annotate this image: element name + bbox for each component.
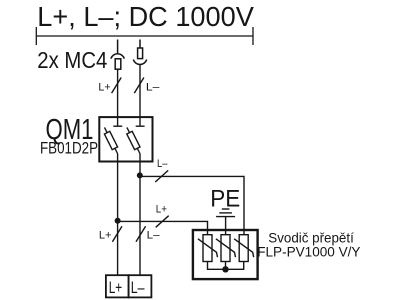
earth symbol PE [216, 209, 235, 235]
break mark on lower L+ wire [112, 226, 122, 242]
svg-text:L–: L– [146, 82, 160, 94]
svg-text:L+: L+ [98, 82, 111, 94]
surge protective device box [193, 230, 258, 279]
junction node on L+ wire [115, 218, 121, 224]
switch-disconnector QM1 box [99, 117, 152, 161]
svg-text:L–: L– [147, 229, 161, 241]
QM1 pole 1 fuse body [104, 131, 117, 149]
wire L+ branch to SPD [118, 221, 208, 234]
svg-text:Svodič přepětí: Svodič přepětí [268, 229, 354, 245]
terminal block L- [129, 275, 152, 297]
svg-text:L+: L+ [99, 229, 112, 241]
junction node on L- wire [137, 172, 143, 178]
wire L+ lower [117, 154, 119, 276]
varistor 3 stroke [234, 239, 254, 257]
connector X1 MC4 (socket over pin) [111, 40, 124, 70]
QM1 pole 2 blade [127, 127, 140, 153]
wire L- upper [139, 64, 141, 117]
break mark on lower L- wire [136, 226, 146, 242]
break mark on upper L+ wire [112, 78, 122, 94]
svg-text:L+, L–; DC 1000V: L+, L–; DC 1000V [37, 1, 254, 32]
break mark on upper L- wire [134, 78, 144, 94]
svg-text:L–: L– [131, 279, 145, 297]
QM1 pole 2 contact bar [136, 125, 145, 127]
svg-text:PE: PE [210, 185, 240, 212]
SPD bottom bus [208, 262, 244, 270]
svg-text:FB01D2P: FB01D2P [40, 139, 98, 157]
SPD bottom junction node [222, 266, 228, 272]
QM1 pole 1 blade [105, 127, 118, 153]
varistor 1 stroke [198, 239, 218, 257]
svg-text:2x MC4: 2x MC4 [37, 47, 107, 73]
QM1 pole 2 contact stub [139, 117, 141, 125]
varistor 2 body [221, 235, 230, 262]
wire L+ upper [117, 69, 119, 117]
svg-text:L+: L+ [109, 279, 123, 297]
svg-text:FLP-PV1000 V/Y: FLP-PV1000 V/Y [257, 244, 360, 259]
connector X2 MC4 (pin over socket) [133, 40, 146, 65]
break mark on L+ branch [156, 216, 169, 228]
terminal block L+ [106, 275, 129, 297]
QM1 pole 1 contact bar [113, 125, 122, 127]
svg-text:L–: L– [157, 158, 168, 170]
svg-text:L+: L+ [156, 203, 168, 215]
varistor 3 body [239, 235, 248, 262]
wire L- lower [139, 154, 141, 276]
QM1 pole 1 contact stub [117, 117, 119, 125]
varistor 2 stroke [216, 239, 236, 257]
SPD middle bottom stub [225, 262, 227, 270]
wire L- branch to SPD [140, 176, 244, 234]
QM1 pole 2 fuse body [127, 131, 140, 149]
dimension bracket [36, 27, 253, 45]
varistor 1 body [203, 235, 212, 262]
break mark on L- branch [155, 170, 168, 182]
